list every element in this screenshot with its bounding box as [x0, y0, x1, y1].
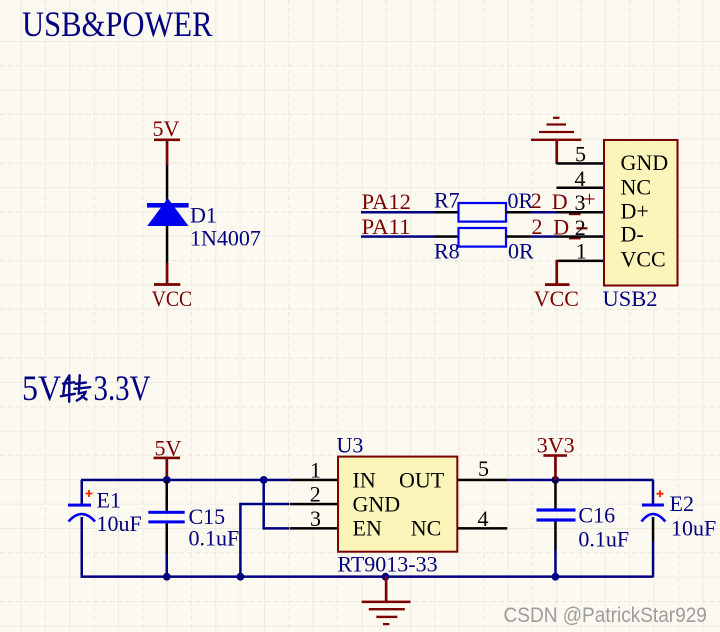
pin U3.2	[290, 503, 338, 506]
svg-text:VCC: VCC	[621, 247, 666, 272]
svg-text:RT9013-33: RT9013-33	[338, 552, 438, 577]
net label D+	[552, 187, 596, 215]
pin U3.1	[290, 479, 338, 482]
svg-text:GND: GND	[353, 492, 401, 517]
svg-text:2: 2	[575, 215, 586, 240]
pin U3.3	[290, 527, 338, 530]
svg-text:USB&POWER: USB&POWER	[22, 4, 213, 44]
svg-text:R8: R8	[434, 238, 460, 263]
wire PA12 to R7	[361, 211, 435, 214]
power port 5V (regulator)	[154, 436, 182, 481]
svg-text:5V: 5V	[22, 368, 61, 408]
svg-text:PA12: PA12	[362, 189, 412, 214]
svg-text:GND: GND	[621, 150, 669, 175]
svg-text:CSDN @PatrickStar929: CSDN @PatrickStar929	[504, 604, 707, 627]
wire R7 to USB pin3	[531, 211, 557, 214]
resistor R8	[434, 228, 534, 263]
power port VCC (USB branch)	[534, 260, 579, 311]
power port VCC (diode branch)	[152, 263, 193, 311]
capacitor C16	[537, 480, 630, 577]
pin USB2.3	[557, 211, 605, 214]
svg-text:3: 3	[575, 190, 586, 215]
svg-text:E1: E1	[97, 488, 121, 513]
svg-text:3: 3	[310, 506, 321, 531]
wire R8 to USB pin2	[531, 235, 557, 238]
svg-text:D: D	[552, 189, 568, 214]
svg-text:NC: NC	[621, 175, 652, 200]
net label D-	[553, 215, 587, 240]
pin USB2.2	[557, 235, 605, 238]
pin USB2.5	[557, 162, 605, 165]
svg-text:2: 2	[531, 188, 542, 213]
capacitor E1	[68, 480, 142, 577]
svg-text:OUT: OUT	[399, 467, 445, 492]
title 5V to 3.3V	[22, 368, 151, 408]
wire diode anode to VCC	[166, 226, 169, 264]
wire GND pin2 to bottom rail	[240, 504, 289, 577]
node rail/C16 bottom	[552, 573, 560, 581]
pin USB2.1	[557, 260, 605, 263]
svg-text:E2: E2	[670, 491, 694, 516]
svg-text:10uF: 10uF	[97, 511, 142, 536]
svg-text:1N4007: 1N4007	[190, 226, 261, 251]
ground (earth) above USB2	[531, 117, 581, 164]
svg-text:0R: 0R	[508, 238, 534, 263]
diode D1	[147, 198, 261, 250]
wire EN pin3 to top rail	[264, 480, 289, 528]
wire bottom ground rail	[81, 575, 654, 578]
node rail/C15	[163, 476, 171, 484]
svg-text:4: 4	[478, 506, 489, 531]
node rail/EN	[260, 476, 268, 484]
pin USB2.4	[557, 187, 605, 190]
wire 5V top rail	[81, 479, 290, 482]
pin R8.2	[506, 235, 531, 238]
net mark under pin2	[569, 238, 581, 240]
svg-text:NC: NC	[411, 516, 442, 541]
svg-text:3V3: 3V3	[537, 433, 575, 458]
svg-text:U3: U3	[337, 432, 364, 457]
node rail/earth	[382, 573, 390, 581]
svg-text:C16: C16	[578, 502, 615, 527]
svg-text:D+: D+	[621, 199, 649, 224]
power port 3V3	[537, 433, 575, 481]
capacitor C15	[148, 480, 239, 577]
svg-text:3.3V: 3.3V	[94, 368, 151, 408]
svg-text:VCC: VCC	[152, 286, 193, 311]
pin U3.5	[457, 479, 507, 482]
pin R7.1	[435, 211, 459, 214]
svg-text:0.1uF: 0.1uF	[578, 527, 629, 552]
svg-text:0R: 0R	[508, 188, 534, 213]
net mark under pin3	[569, 213, 581, 215]
pin R7.2	[506, 211, 531, 214]
pin R8.1	[435, 235, 459, 238]
svg-text:2: 2	[532, 214, 543, 239]
svg-text:EN: EN	[353, 516, 382, 541]
svg-text:4: 4	[575, 166, 586, 191]
svg-text:5: 5	[478, 456, 489, 481]
wire PA11 to R8	[361, 235, 435, 238]
svg-text:USB2: USB2	[603, 286, 658, 311]
svg-text:VCC: VCC	[534, 286, 579, 311]
svg-text:R7: R7	[434, 188, 460, 213]
ground (earth) below U3	[362, 577, 411, 626]
connector USB2	[603, 140, 678, 311]
power port 5V (diode branch)	[153, 116, 181, 165]
svg-text:1: 1	[310, 458, 321, 483]
node 3V3/C16	[552, 476, 560, 484]
svg-text:0.1uF: 0.1uF	[189, 526, 240, 551]
wire OUT to E2	[507, 479, 653, 482]
capacitor E2	[642, 480, 717, 577]
svg-text:D-: D-	[621, 221, 644, 246]
regulator U3	[337, 432, 458, 576]
wire 5V to diode cathode	[166, 165, 169, 205]
pin U3.4	[457, 527, 507, 530]
svg-text:2: 2	[310, 482, 321, 507]
svg-text:IN: IN	[353, 467, 376, 492]
node rail/GND pin	[237, 573, 245, 581]
node rail/C15 bottom	[163, 573, 171, 581]
svg-text:D1: D1	[190, 202, 217, 227]
svg-text:5: 5	[575, 141, 586, 166]
resistor R7	[434, 188, 534, 222]
svg-text:10uF: 10uF	[671, 515, 716, 540]
svg-text:5V: 5V	[153, 116, 180, 141]
svg-text:1: 1	[576, 238, 587, 263]
